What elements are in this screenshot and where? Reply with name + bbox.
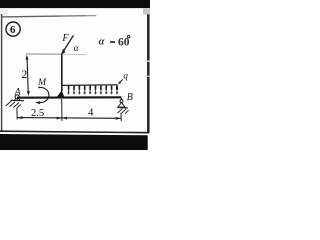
frame bottom border (0, 131, 149, 133)
svg-text:α: α (99, 37, 105, 48)
grey block top-right (143, 9, 150, 15)
load arrow 10 (116, 86, 118, 90)
frame left border (1, 14, 3, 132)
ground line at A (11, 99, 25, 101)
beam A-B (17, 96, 121, 99)
hatching at A (6, 101, 21, 108)
dim 2 extension line (grey horizontal) (26, 53, 62, 55)
svg-text:4: 4 (88, 108, 94, 119)
force F arrowhead (61, 49, 65, 55)
hatching at B (117, 109, 128, 114)
load arrow 2 (73, 86, 75, 90)
svg-text:2: 2 (22, 69, 28, 81)
variant circle 6 (6, 22, 20, 36)
force F line (62, 35, 74, 53)
svg-text:M: M (37, 78, 47, 88)
faint grey smudge under bar left (0, 8, 8, 14)
load arrow 8 (105, 86, 107, 90)
load arrow 3 (78, 86, 80, 90)
svg-text:α: α (74, 43, 79, 53)
witness line under B (120, 113, 122, 121)
load arrow 5 (89, 86, 91, 90)
dim 2 bottom arrowhead (27, 91, 30, 96)
ground line at B (117, 107, 128, 109)
svg-text:B: B (127, 92, 133, 103)
q leader arrowhead (118, 81, 121, 84)
dim middle arrowheads (57, 117, 62, 120)
equals dash (110, 41, 115, 43)
degree mark (128, 35, 130, 37)
frame top border faded end (85, 15, 96, 17)
frame top border faded mid (60, 15, 85, 17)
paper background (0, 0, 150, 150)
frame right border (thick) (147, 14, 150, 133)
witness line under A (16, 108, 18, 120)
load arrow 6 (95, 86, 97, 90)
bottom dimension line (17, 117, 121, 120)
moment arc start dot (38, 87, 40, 89)
witness line under post (61, 99, 63, 121)
load arrow 1 (68, 86, 70, 90)
pin A legs (15, 98, 20, 100)
grey horizontal line right of post (62, 53, 87, 55)
support B pin circle (120, 100, 123, 103)
load arrow 4 (84, 86, 86, 90)
moment M arrowhead (35, 101, 40, 104)
right border scan breaks (147, 60, 150, 62)
distributed load top line (62, 84, 117, 87)
svg-text:6: 6 (10, 24, 16, 36)
post foot gusset triangle (57, 90, 65, 97)
q leader line (119, 79, 123, 83)
post (61, 54, 63, 91)
dim right arrowhead (116, 117, 121, 120)
load arrow 7 (100, 86, 102, 90)
top black scan bar (0, 0, 150, 8)
pin A circle (15, 95, 19, 99)
svg-text:q: q (123, 71, 128, 81)
svg-text:2.5: 2.5 (31, 108, 44, 119)
dim left arrowhead (17, 116, 22, 119)
load arrow 9 (111, 86, 113, 90)
dim 2 vertical line (27, 57, 28, 94)
support B stem (120, 98, 122, 100)
dim 2 top arrowhead (26, 55, 29, 60)
svg-text:F: F (61, 33, 69, 44)
frame top border (1, 15, 60, 18)
moment M arc (39, 87, 49, 102)
bottom black scan bar (0, 134, 148, 150)
support B triangle (118, 103, 125, 108)
